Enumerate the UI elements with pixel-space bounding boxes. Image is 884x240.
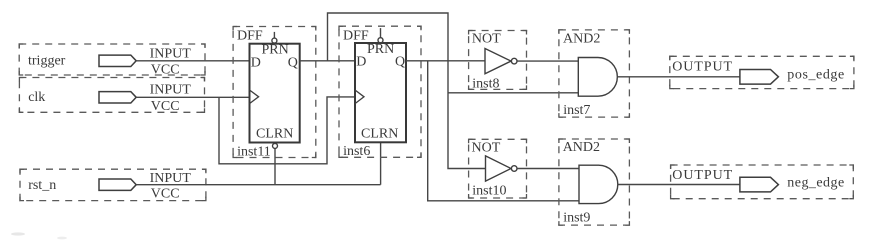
svg-text:inst6: inst6 <box>343 144 370 159</box>
input pin trigger selection box <box>19 44 205 75</box>
svg-text:rst_n: rst_n <box>28 178 56 193</box>
svg-text:NOT: NOT <box>472 32 501 47</box>
svg-text:INPUT: INPUT <box>150 83 192 98</box>
wire clk branch down and over to DFF inst6 clock <box>219 97 355 164</box>
svg-text:Q: Q <box>395 55 405 70</box>
inst6 clock triangle <box>355 90 364 104</box>
inst6 PRN stub and bubble <box>378 28 383 43</box>
DFF U inst11 <box>237 29 300 143</box>
svg-text:AND2: AND2 <box>563 140 600 155</box>
wire clk to DFF inst11 clock <box>136 96 249 98</box>
wire inst8 out to AND2 inst7 upper input <box>517 60 578 62</box>
wire inst11 Q to inst6 D <box>300 60 355 62</box>
inst11 CLRN bubble <box>273 143 278 148</box>
svg-text:inst7: inst7 <box>563 103 590 118</box>
DFF inst11 selection box <box>233 27 316 158</box>
svg-text:D: D <box>356 55 366 70</box>
svg-text:VCC: VCC <box>151 63 180 78</box>
svg-text:inst11: inst11 <box>237 144 271 159</box>
svg-text:pos_edge: pos_edge <box>787 68 844 83</box>
input pin clk <box>28 83 191 114</box>
faint smudge bottom left (scan artifact) <box>11 232 67 239</box>
svg-text:DFF: DFF <box>237 29 263 44</box>
wire rst_n branch up to inst11 CLRN bubble <box>274 148 276 184</box>
DFF U inst6 <box>343 28 406 142</box>
wire inst6 Q branch down to AND2 inst9 lower input <box>428 61 579 201</box>
wire rst_n up to inst6 CLRN <box>380 142 382 184</box>
AND2 gate inst7 <box>563 31 617 118</box>
svg-text:DFF: DFF <box>343 28 369 43</box>
AND2 gate inst9 <box>563 140 618 226</box>
inst11 PRN stub and bubble <box>272 32 277 43</box>
svg-text:OUTPUT: OUTPUT <box>672 168 732 183</box>
wire branch to AND2 inst7 lower input <box>448 92 578 94</box>
wire inst6 Q to NOT inst8 <box>406 60 485 62</box>
svg-text:VCC: VCC <box>151 99 180 114</box>
svg-text:INPUT: INPUT <box>150 46 192 61</box>
wire inst7 out to output pin pos_edge <box>617 76 740 78</box>
svg-text:VCC: VCC <box>151 187 180 202</box>
wire rst_n to DFF CLRN pins <box>136 184 380 186</box>
output pin neg_edge <box>672 168 844 192</box>
output pin pos_edge <box>672 60 844 85</box>
svg-text:CLRN: CLRN <box>361 127 398 142</box>
svg-text:Q: Q <box>288 55 298 70</box>
wire trigger to DFF inst11 D <box>136 60 249 62</box>
wire inst11 Q up over inst6 and down <box>328 13 486 169</box>
svg-text:inst10: inst10 <box>472 183 506 198</box>
NOT gate inst8 <box>472 32 517 92</box>
output pin pos_edge selection box <box>670 56 854 88</box>
svg-text:inst9: inst9 <box>563 211 590 226</box>
svg-text:CLRN: CLRN <box>256 126 293 141</box>
NOT inst10 selection box <box>469 139 527 198</box>
svg-text:trigger: trigger <box>28 54 66 69</box>
svg-text:PRN: PRN <box>367 42 394 57</box>
wire inst10 out to AND2 inst9 upper input <box>517 168 579 170</box>
NOT gate inst10 <box>472 140 518 198</box>
svg-text:OUTPUT: OUTPUT <box>672 60 732 75</box>
AND2 inst7 selection box <box>559 30 630 117</box>
wire inst9 out to output pin neg_edge <box>618 184 740 186</box>
svg-text:AND2: AND2 <box>563 31 600 46</box>
NOT inst8 selection box <box>469 31 527 90</box>
svg-text:NOT: NOT <box>472 140 501 155</box>
svg-text:clk: clk <box>28 90 45 105</box>
svg-text:neg_edge: neg_edge <box>787 175 844 190</box>
inst11 clock triangle <box>250 90 259 104</box>
output pin neg_edge selection box <box>671 165 854 199</box>
DFF inst6 selection box <box>339 26 421 157</box>
input pin trigger <box>28 46 191 77</box>
svg-text:inst8: inst8 <box>472 76 499 91</box>
svg-text:D: D <box>251 55 261 70</box>
svg-text:PRN: PRN <box>262 43 289 58</box>
AND2 inst9 selection box <box>559 139 630 225</box>
input pin rst_n selection box <box>20 169 206 200</box>
input pin clk selection box <box>19 78 204 113</box>
input pin rst_n <box>28 171 191 202</box>
svg-text:INPUT: INPUT <box>150 171 192 186</box>
